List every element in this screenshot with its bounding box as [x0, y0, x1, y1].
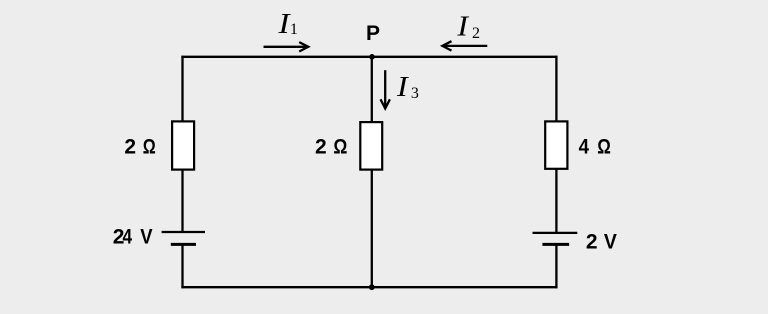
svg-text:Ω: Ω [143, 135, 156, 158]
svg-text:2: 2 [586, 230, 598, 253]
svg-text:Ω: Ω [333, 135, 347, 158]
svg-text:V: V [604, 230, 617, 253]
svg-text:4: 4 [123, 226, 133, 249]
svg-text:Ω: Ω [597, 135, 611, 158]
svg-text:P: P [366, 22, 380, 45]
svg-text:4: 4 [579, 135, 590, 158]
svg-text:2: 2 [315, 135, 327, 158]
svg-text:2: 2 [124, 135, 136, 158]
svg-text:3: 3 [411, 85, 419, 102]
svg-text:1: 1 [290, 21, 298, 38]
svg-text:2: 2 [472, 25, 480, 42]
svg-text:I: I [396, 71, 409, 103]
svg-text:V: V [140, 226, 152, 249]
svg-text:I: I [456, 11, 469, 43]
